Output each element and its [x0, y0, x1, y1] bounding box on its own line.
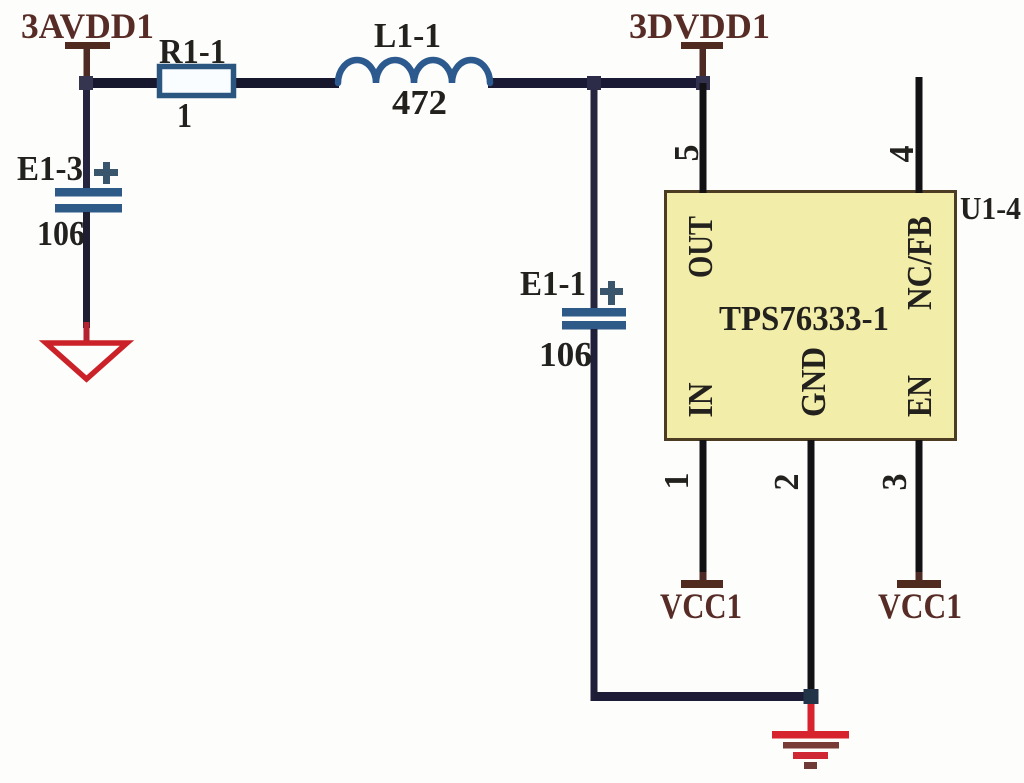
wire: bottom rail to ground node [594, 692, 811, 701]
svg-text:2: 2 [767, 474, 806, 491]
inductor L1-1 [338, 60, 490, 83]
svg-text:R1-1: R1-1 [159, 32, 226, 71]
wire: resistor to inductor [234, 78, 339, 88]
earth ground symbol (stub + bars) [772, 704, 849, 769]
svg-text:U1-4: U1-4 [960, 190, 1021, 226]
node B junction dot (pin5 rail) [587, 76, 601, 90]
svg-text:VCC1: VCC1 [660, 586, 742, 626]
svg-text:GND: GND [794, 347, 833, 417]
svg-text:4: 4 [882, 146, 921, 163]
node C junction dot (3DVDD1 / pin5) [696, 76, 710, 90]
capacitor E1-1 polarity plus [600, 281, 623, 305]
svg-text:3: 3 [875, 474, 914, 491]
svg-text:IN: IN [681, 383, 720, 418]
svg-text:L1-1: L1-1 [374, 16, 441, 55]
power symbol VCC1 left (stub + bar) [681, 572, 723, 588]
svg-text:E1-1: E1-1 [520, 264, 586, 303]
svg-text:472: 472 [392, 83, 447, 122]
svg-text:NC/FB: NC/FB [900, 216, 939, 310]
svg-text:5: 5 [667, 145, 706, 162]
capacitor E1-3 plates [55, 188, 122, 213]
svg-text:OUT: OUT [681, 216, 720, 278]
svg-text:1: 1 [177, 96, 192, 135]
ground symbol (triangle) [46, 322, 127, 379]
svg-text:3DVDD1: 3DVDD1 [629, 6, 770, 46]
wire: capacitor E1-1 down to bottom rail [591, 329, 598, 701]
wire: node A down to capacitor E1-3 [83, 83, 90, 190]
pin 4 stub (NC/FB) [916, 77, 923, 193]
svg-text:VCC1: VCC1 [878, 586, 962, 626]
power symbol VCC1 right (stub + bar) [897, 572, 941, 588]
IC U1-4 body [666, 192, 956, 440]
power symbol 3AVDD1 (bar + stub) [65, 42, 110, 76]
svg-text:TPS76333-1: TPS76333-1 [719, 299, 889, 338]
ground node junction dot [804, 689, 819, 704]
svg-text:3AVDD1: 3AVDD1 [21, 6, 154, 46]
wire: inductor to pin5 node [488, 78, 707, 88]
svg-text:E1-3: E1-3 [17, 149, 83, 188]
power symbol 3DVDD1 (bar + stub) [681, 42, 723, 78]
pin 1 stub (IN) [700, 440, 707, 577]
svg-text:106: 106 [37, 214, 85, 253]
resistor R1-1 [160, 67, 234, 96]
wire: pin5 node down to capacitor E1-1 [591, 83, 598, 309]
svg-text:106: 106 [539, 335, 592, 374]
node A junction dot [79, 76, 93, 90]
svg-text:EN: EN [900, 375, 939, 417]
svg-text:1: 1 [657, 473, 696, 490]
pin 5 stub (OUT) [700, 83, 707, 193]
wire: capacitor E1-3 to ground [83, 212, 90, 328]
pin 3 stub (EN) [916, 440, 923, 577]
capacitor E1-3 polarity plus [94, 162, 118, 184]
pin 2 stub (GND) [808, 440, 815, 693]
capacitor E1-1 plates [562, 308, 626, 330]
wire: top rail from node A to resistor [82, 78, 158, 88]
